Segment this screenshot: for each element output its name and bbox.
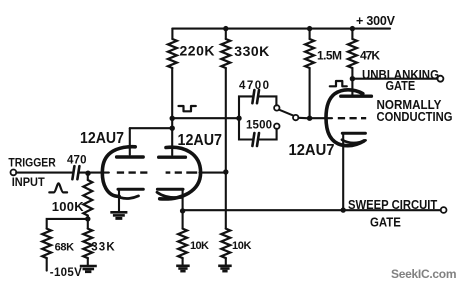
svg-text:12AU7: 12AU7 xyxy=(289,142,335,160)
svg-text:100K: 100K xyxy=(52,199,85,214)
svg-text:1.5M: 1.5M xyxy=(317,49,342,63)
svg-text:68K: 68K xyxy=(55,242,75,254)
svg-text:GATE: GATE xyxy=(370,215,401,230)
svg-text:INPUT: INPUT xyxy=(12,177,45,190)
svg-text:47K: 47K xyxy=(360,49,380,63)
svg-text:470: 470 xyxy=(67,155,87,167)
svg-text:+ 300V: + 300V xyxy=(356,14,396,28)
svg-text:CONDUCTING: CONDUCTING xyxy=(377,109,453,124)
svg-text:12AU7: 12AU7 xyxy=(80,129,124,147)
svg-text:1500: 1500 xyxy=(246,120,272,132)
svg-text:10K: 10K xyxy=(232,240,252,252)
svg-text:SWEEP CIRCUIT: SWEEP CIRCUIT xyxy=(348,197,438,212)
svg-text:4700: 4700 xyxy=(239,80,269,92)
svg-text:330K: 330K xyxy=(234,43,269,59)
svg-text:TRIGGER: TRIGGER xyxy=(8,157,55,170)
svg-text:10K: 10K xyxy=(190,240,209,252)
svg-text:33K: 33K xyxy=(91,242,115,254)
svg-text:GATE: GATE xyxy=(386,78,416,93)
svg-text:12AU7: 12AU7 xyxy=(178,131,222,149)
svg-text:SeekIC.com: SeekIC.com xyxy=(391,267,457,281)
svg-text:-105V: -105V xyxy=(50,267,82,279)
svg-text:220K: 220K xyxy=(180,43,215,59)
